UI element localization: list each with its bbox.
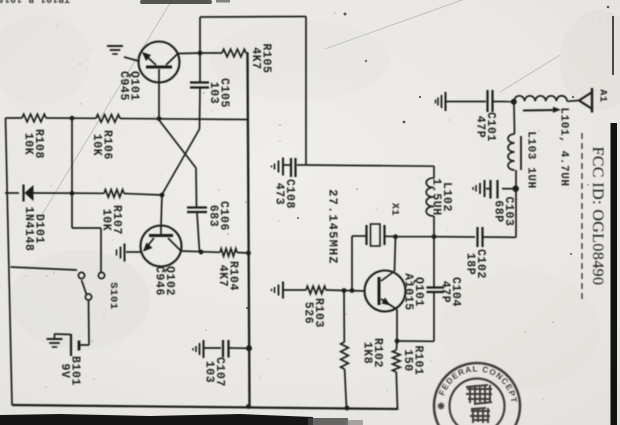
svg-text:X1: X1 xyxy=(388,203,399,216)
svg-text:A1: A1 xyxy=(596,89,607,102)
svg-text:R101150: R101150 xyxy=(401,345,424,375)
svg-text:L103 1UH: L103 1UH xyxy=(525,131,537,189)
svg-text:C10218P: C10218P xyxy=(464,249,487,279)
svg-text:L1021.5UH: L1021.5UH xyxy=(430,178,453,216)
svg-text:C10447P: C10447P xyxy=(439,277,462,307)
svg-text:Q101A1015: Q101A1015 xyxy=(402,273,425,311)
svg-text:R10810K: R10810K xyxy=(22,129,45,159)
svg-text:R10710K: R10710K xyxy=(100,205,123,235)
svg-text:R1021K8: R1021K8 xyxy=(361,338,384,368)
svg-text:R1054K7: R1054K7 xyxy=(249,43,272,73)
svg-text:C108473: C108473 xyxy=(273,179,296,209)
svg-text:C105103: C105103 xyxy=(207,78,230,108)
svg-text:L101, 4.7UH: L101, 4.7UH xyxy=(558,107,570,186)
svg-text:C107103: C107103 xyxy=(203,357,226,387)
svg-text:R103526: R103526 xyxy=(302,298,325,328)
svg-text:C10147P: C10147P xyxy=(474,112,497,142)
svg-text:27.145MHZ: 27.145MHZ xyxy=(326,189,340,265)
svg-text:Q102C946: Q102C946 xyxy=(153,266,176,296)
svg-text:TR101 B 101A1: TR101 B 101A1 xyxy=(0,0,70,5)
svg-text:R10610K: R10610K xyxy=(90,130,113,160)
svg-text:S101: S101 xyxy=(107,282,119,310)
svg-text:R1044K7: R1044K7 xyxy=(216,261,239,291)
svg-text:C106683: C106683 xyxy=(207,201,230,231)
svg-text:C10368P: C10368P xyxy=(492,196,515,226)
svg-text:FCC ID: OGL08490: FCC ID: OGL08490 xyxy=(589,147,606,286)
svg-text:Q101C945: Q101C945 xyxy=(117,71,140,101)
